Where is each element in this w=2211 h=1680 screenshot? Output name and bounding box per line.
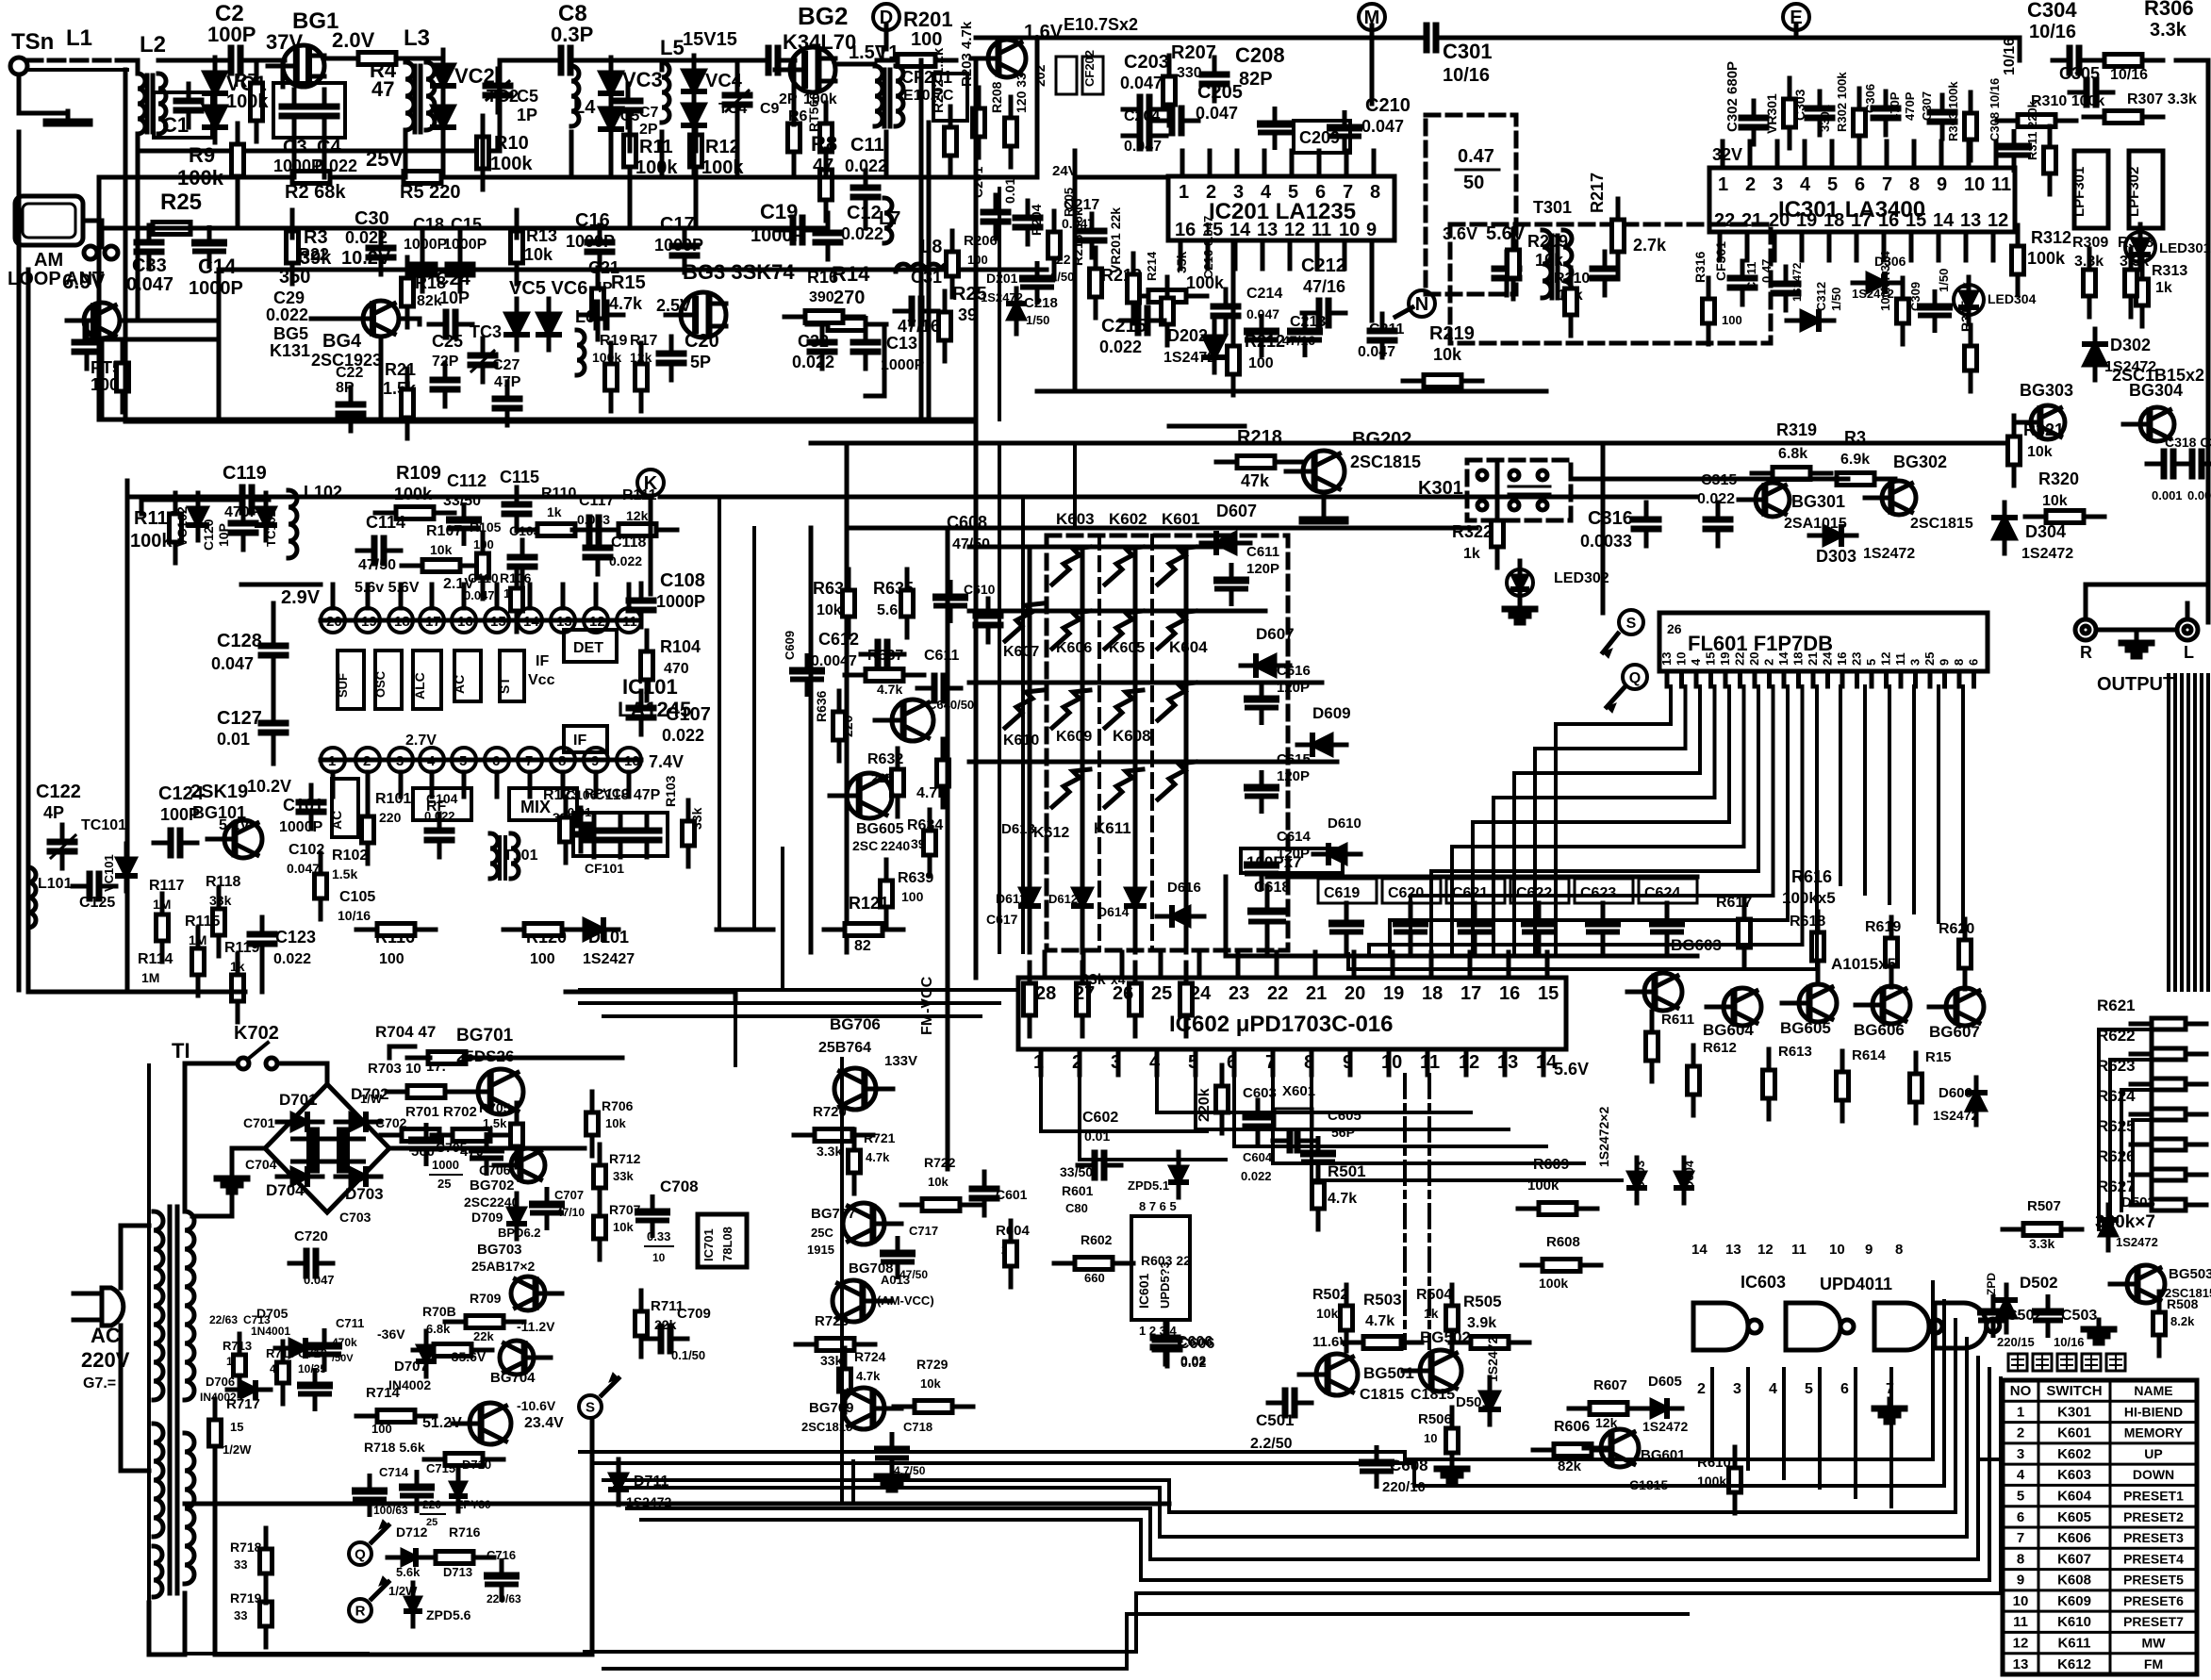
short bottom line left <box>189 1652 368 1655</box>
svg-text:10k: 10k <box>613 1220 634 1234</box>
svg-text:R2 68k: R2 68k <box>285 182 346 203</box>
svg-text:10/16: 10/16 <box>2054 1335 2085 1349</box>
svg-text:R712: R712 <box>609 1151 641 1166</box>
transistor BG201 <box>971 57 998 61</box>
svg-text:2.5V: 2.5V <box>656 296 691 315</box>
mid vertical buses <box>974 421 979 978</box>
svg-text:10k: 10k <box>1433 345 1462 364</box>
pin stub <box>1208 151 1213 176</box>
svg-text:0.022: 0.022 <box>273 951 311 967</box>
svg-text:4.7k: 4.7k <box>1365 1313 1394 1329</box>
svg-text:R608: R608 <box>1546 1234 1580 1250</box>
transistor BG604 <box>1707 1005 1734 1010</box>
resistor R7 100k <box>255 62 259 83</box>
svg-text:AM: AM <box>34 250 63 271</box>
svg-text:10/16: 10/16 <box>1443 65 1490 86</box>
svg-text:R17: R17 <box>630 333 657 349</box>
svg-text:20: 20 <box>1747 652 1761 666</box>
svg-text:2240: 2240 <box>881 838 910 853</box>
svg-text:R613: R613 <box>1778 1044 1812 1060</box>
svg-text:C108: C108 <box>660 570 705 591</box>
svg-text:K601: K601 <box>1162 510 1200 528</box>
svg-text:11: 11 <box>1312 220 1331 240</box>
svg-text:D607: D607 <box>1216 502 1257 520</box>
svg-text:16: 16 <box>1175 220 1196 240</box>
long wires la1245 bottom <box>28 990 245 995</box>
capacitor C1 <box>154 92 212 138</box>
svg-text:-10.6V: -10.6V <box>517 1398 556 1413</box>
svg-text:22: 22 <box>1733 652 1747 666</box>
svg-text:SUF: SUF <box>336 673 350 698</box>
svg-text:100: 100 <box>379 951 404 967</box>
svg-text:D604: D604 <box>1682 1160 1696 1190</box>
svg-text:16: 16 <box>1878 210 1899 231</box>
svg-text:DET: DET <box>573 640 603 656</box>
cap row bus <box>1226 877 1697 956</box>
svg-text:IC701: IC701 <box>701 1228 716 1261</box>
svg-text:PRESET6: PRESET6 <box>2123 1593 2184 1608</box>
svg-text:10: 10 <box>1829 1242 1845 1258</box>
svg-text:C119: C119 <box>223 463 267 484</box>
svg-text:ZPD5.6: ZPD5.6 <box>426 1607 471 1622</box>
svg-text:R703 10: R703 10 <box>368 1061 421 1077</box>
svg-text:(AM-VCC): (AM-VCC) <box>877 1293 934 1308</box>
resistor R10 100k <box>481 116 486 137</box>
svg-text:10: 10 <box>1381 1052 1402 1073</box>
svg-text:C503: C503 <box>2061 1308 2097 1324</box>
svg-text:25AB17×2: 25AB17×2 <box>471 1259 536 1274</box>
svg-text:100: 100 <box>371 1422 392 1436</box>
svg-text:7: 7 <box>2017 1530 2024 1546</box>
resistor R12 100k <box>694 114 699 135</box>
svg-text:R19: R19 <box>600 333 627 349</box>
svg-text:C708: C708 <box>660 1178 699 1195</box>
svg-text:R504: R504 <box>1416 1287 1452 1303</box>
svg-text:10: 10 <box>1964 174 1985 195</box>
svg-text:Vcc: Vcc <box>528 672 555 688</box>
svg-text:13: 13 <box>1257 220 1278 240</box>
svg-text:C118: C118 <box>611 535 646 551</box>
svg-text:1S2472: 1S2472 <box>1933 1108 1978 1123</box>
svg-text:26: 26 <box>1113 983 1133 1004</box>
svg-text:IF: IF <box>573 733 586 749</box>
svg-text:11: 11 <box>1791 1242 1807 1258</box>
svg-text:R202 1.2k: R202 1.2k <box>931 47 947 113</box>
C610 caps <box>949 583 953 598</box>
switch K602 <box>1105 547 1143 585</box>
svg-text:1: 1 <box>2017 1404 2024 1420</box>
svg-text:C601: C601 <box>996 1187 1028 1202</box>
svg-text:L2: L2 <box>140 32 166 58</box>
svg-text:IC602 μPD1703C-016: IC602 μPD1703C-016 <box>1169 1012 1394 1037</box>
svg-text:R606: R606 <box>1554 1419 1590 1435</box>
svg-text:100P: 100P <box>160 805 200 824</box>
svg-text:10/16: 10/16 <box>2110 67 2148 83</box>
svg-text:10k: 10k <box>928 1175 949 1189</box>
svg-text:2SA1015: 2SA1015 <box>1784 516 1847 532</box>
svg-text:BG605: BG605 <box>856 821 904 837</box>
svg-text:0.1/50: 0.1/50 <box>671 1348 705 1362</box>
svg-text:L: L <box>2184 643 2194 662</box>
svg-text:330: 330 <box>1177 65 1202 81</box>
svg-text:1P: 1P <box>517 106 537 124</box>
svg-text:12k: 12k <box>1595 1415 1618 1430</box>
capacitor C621 <box>1446 879 1505 903</box>
svg-text:13: 13 <box>1725 1242 1741 1258</box>
svg-text:L5: L5 <box>660 36 685 59</box>
resistor R13 10k <box>515 210 520 231</box>
svg-text:BG709: BG709 <box>809 1400 854 1416</box>
svg-text:25C: 25C <box>811 1226 833 1240</box>
svg-text:0.047: 0.047 <box>126 274 173 295</box>
svg-text:C123: C123 <box>275 928 316 947</box>
svg-text:22: 22 <box>1056 252 1071 267</box>
svg-text:K301: K301 <box>2057 1404 2091 1420</box>
svg-text:LPF302: LPF302 <box>2126 167 2142 217</box>
svg-text:16: 16 <box>1499 983 1520 1004</box>
svg-text:6.8k: 6.8k <box>1778 446 1807 462</box>
svg-text:R621: R621 <box>2097 996 2136 1014</box>
svg-text:32V: 32V <box>1712 145 1742 164</box>
svg-text:A1015x5: A1015x5 <box>1831 955 1896 973</box>
svg-text:4.7k: 4.7k <box>856 1369 881 1383</box>
svg-text:10: 10 <box>2013 1593 2029 1609</box>
svg-text:R619: R619 <box>1865 919 1901 935</box>
svg-text:0.47: 0.47 <box>1759 259 1774 283</box>
svg-text:K605: K605 <box>2057 1509 2091 1525</box>
ground <box>66 111 71 123</box>
wires top-left block <box>99 177 976 420</box>
svg-text:24V: 24V <box>1052 163 1078 179</box>
svg-text:C614: C614 <box>1277 829 1312 845</box>
svg-text:K612: K612 <box>2057 1656 2091 1672</box>
svg-text:1000P: 1000P <box>189 278 243 299</box>
svg-text:ST: ST <box>497 677 512 694</box>
svg-text:33k: 33k <box>613 1169 634 1183</box>
svg-text:CF101: CF101 <box>585 861 624 876</box>
svg-text:1000P: 1000P <box>279 819 323 835</box>
bg4 bg5 wires <box>217 321 222 420</box>
svg-text:R303 100k: R303 100k <box>1946 81 1960 141</box>
svg-text:CF301: CF301 <box>1713 241 1728 281</box>
svg-text:R114: R114 <box>138 951 173 967</box>
svg-text:3: 3 <box>1733 1381 1741 1397</box>
svg-text:C620: C620 <box>1388 885 1424 901</box>
svg-text:D612: D612 <box>1048 892 1078 906</box>
svg-text:0.047: 0.047 <box>1361 117 1404 136</box>
svg-text:18: 18 <box>1823 210 1844 231</box>
block RF <box>413 788 471 820</box>
svg-text:C122: C122 <box>36 782 81 802</box>
svg-text:C619: C619 <box>1324 885 1360 901</box>
svg-text:PRESET2: PRESET2 <box>2123 1509 2184 1524</box>
matrix horizontal wires <box>969 545 1226 550</box>
wire antenna dashed <box>26 58 127 63</box>
svg-text:100: 100 <box>967 253 988 267</box>
svg-text:20: 20 <box>1345 983 1365 1004</box>
svg-text:R11: R11 <box>639 137 673 157</box>
svg-text:R5 220: R5 220 <box>400 182 461 203</box>
transistor BG503 2SC1815 <box>2110 1282 2137 1287</box>
svg-text:1: 1 <box>1718 174 1728 195</box>
svg-text:C128: C128 <box>217 631 262 651</box>
svg-text:12: 12 <box>1757 1242 1774 1258</box>
svg-text:1000P: 1000P <box>404 237 448 253</box>
svg-text:5.2V: 5.2V <box>219 817 250 833</box>
svg-text:0.047: 0.047 <box>304 1273 335 1287</box>
svg-text:1N4001: 1N4001 <box>251 1325 290 1338</box>
svg-text:8: 8 <box>1909 174 1920 195</box>
svg-text:C311: C311 <box>1744 262 1758 290</box>
svg-text:10.2V: 10.2V <box>247 777 291 796</box>
main rail y447 <box>125 420 976 424</box>
svg-text:R21: R21 <box>385 360 416 379</box>
svg-text:0.022: 0.022 <box>792 353 834 371</box>
svg-text:R614: R614 <box>1852 1047 1887 1063</box>
svg-text:16: 16 <box>1835 652 1849 666</box>
svg-text:21: 21 <box>1741 210 1762 231</box>
svg-text:0.001: 0.001 <box>2152 488 2183 502</box>
capacitor C624 <box>1639 879 1697 903</box>
svg-text:R70B: R70B <box>422 1304 456 1319</box>
svg-text:Q: Q <box>1629 670 1641 686</box>
svg-text:2.9V: 2.9V <box>281 587 321 608</box>
svg-text:C715: C715 <box>426 1461 455 1475</box>
svg-text:D609: D609 <box>1312 704 1351 722</box>
svg-text:50: 50 <box>1463 173 1484 193</box>
svg-text:R: R <box>355 1603 366 1619</box>
svg-text:1S2472: 1S2472 <box>1790 262 1804 302</box>
svg-text:BG304: BG304 <box>2129 381 2183 400</box>
svg-text:12: 12 <box>1459 1052 1479 1073</box>
svg-text:7: 7 <box>1343 182 1353 203</box>
LED301 <box>2125 232 2155 262</box>
svg-text:R729: R729 <box>916 1357 949 1372</box>
svg-text:R105: R105 <box>470 519 502 535</box>
svg-text:R109: R109 <box>396 463 441 484</box>
svg-text:5P: 5P <box>690 353 711 371</box>
svg-text:0.022: 0.022 <box>609 553 642 568</box>
svg-text:C701: C701 <box>243 1115 275 1130</box>
svg-text:-35.6V: -35.6V <box>447 1349 487 1364</box>
svg-text:R312: R312 <box>2031 228 2071 247</box>
svg-text:22/63: 22/63 <box>209 1313 238 1326</box>
IC101 pin row top <box>321 608 345 633</box>
svg-text:100k: 100k <box>394 485 433 503</box>
capacitor C623 <box>1575 879 1633 903</box>
svg-text:10k: 10k <box>2042 493 2068 509</box>
svg-text:R212: R212 <box>1245 332 1285 351</box>
svg-text:R201: R201 <box>903 8 953 31</box>
verticals mid left of IC602 <box>781 848 784 990</box>
svg-text:19: 19 <box>1796 210 1817 231</box>
svg-text:82P: 82P <box>1239 69 1273 90</box>
svg-text:DOWN: DOWN <box>2133 1467 2174 1482</box>
svg-text:6: 6 <box>1967 659 1981 666</box>
svg-text:22k: 22k <box>473 1329 494 1343</box>
svg-text:0.047: 0.047 <box>464 588 495 602</box>
svg-text:D701: D701 <box>279 1091 318 1109</box>
svg-text:10k: 10k <box>430 542 453 557</box>
svg-text:24: 24 <box>1190 983 1212 1004</box>
svg-text:C617: C617 <box>986 912 1018 927</box>
svg-text:202: 202 <box>1032 64 1048 87</box>
svg-text:R12: R12 <box>705 137 740 157</box>
svg-text:T301: T301 <box>1533 198 1572 217</box>
node M <box>1359 4 1385 30</box>
NAND gate 4 <box>1935 1303 1987 1348</box>
svg-text:R209: R209 <box>1527 232 1568 251</box>
svg-text:BG5: BG5 <box>273 324 308 343</box>
svg-text:4: 4 <box>2017 1467 2025 1483</box>
svg-text:0.47: 0.47 <box>1458 146 1494 167</box>
varicap VC2 <box>441 50 446 101</box>
svg-text:9: 9 <box>1938 659 1952 666</box>
svg-text:C714: C714 <box>379 1465 409 1479</box>
svg-text:1k: 1k <box>547 504 562 519</box>
svg-text:1000P: 1000P <box>881 357 925 373</box>
svg-text:C640/50: C640/50 <box>928 698 974 712</box>
svg-text:R718: R718 <box>230 1540 262 1555</box>
svg-text:R322: R322 <box>1452 522 1493 541</box>
svg-text:8: 8 <box>1952 659 1966 666</box>
svg-text:1S2472: 1S2472 <box>1485 1337 1500 1382</box>
svg-text:BPD6.2: BPD6.2 <box>498 1226 541 1240</box>
svg-text:33k: 33k <box>689 807 704 830</box>
svg-text:R626: R626 <box>2097 1147 2136 1165</box>
svg-text:C214: C214 <box>1246 286 1282 302</box>
svg-text:AC: AC <box>452 675 467 694</box>
svg-text:1.5k: 1.5k <box>332 866 357 881</box>
svg-text:R22: R22 <box>298 245 329 264</box>
svg-text:PRESET1: PRESET1 <box>2123 1488 2184 1503</box>
svg-text:2: 2 <box>1697 1381 1706 1397</box>
capacitor C209 <box>1294 121 1350 153</box>
svg-text:25: 25 <box>426 1517 437 1528</box>
diodes bottom of matrix <box>1028 874 1032 921</box>
rail y1052 <box>566 992 735 999</box>
svg-text:-11.2V: -11.2V <box>517 1319 555 1334</box>
svg-text:C112: C112 <box>447 471 487 490</box>
svg-text:-36V: -36V <box>377 1326 405 1342</box>
svg-text:L1: L1 <box>66 25 92 51</box>
svg-text:1S2472: 1S2472 <box>2021 546 2073 562</box>
svg-text:R602: R602 <box>1081 1232 1113 1247</box>
svg-text:1915: 1915 <box>807 1243 834 1257</box>
pin stub <box>1262 151 1267 176</box>
svg-text:PRESET7: PRESET7 <box>2123 1614 2184 1629</box>
svg-text:D304: D304 <box>2025 522 2066 541</box>
svg-text:HI-BIEND: HI-BIEND <box>2124 1404 2183 1419</box>
svg-text:R620: R620 <box>1939 921 1974 937</box>
svg-text:1000: 1000 <box>432 1158 459 1172</box>
wires ic301 right <box>2018 38 2022 60</box>
svg-text:220: 220 <box>379 810 402 825</box>
svg-text:27: 27 <box>1074 983 1095 1004</box>
svg-text:D610: D610 <box>1328 815 1361 832</box>
svg-text:100P: 100P <box>207 23 256 46</box>
svg-text:C711: C711 <box>336 1316 364 1330</box>
rail y470 right <box>811 441 2005 446</box>
svg-text:0.02: 0.02 <box>1180 1353 1206 1368</box>
svg-text:LPF301: LPF301 <box>2071 167 2087 217</box>
resistor R4 47 <box>338 57 358 61</box>
svg-text:C606: C606 <box>1177 1334 1213 1350</box>
svg-text:19: 19 <box>1718 652 1732 666</box>
svg-text:ZPD5.1: ZPD5.1 <box>1128 1178 1169 1193</box>
svg-text:8.2k: 8.2k <box>2170 1314 2195 1328</box>
svg-text:C15: C15 <box>451 215 482 234</box>
svg-text:R716: R716 <box>449 1524 481 1540</box>
svg-text:R102: R102 <box>332 848 368 864</box>
svg-text:K131: K131 <box>270 341 310 360</box>
svg-text:R618: R618 <box>1790 914 1825 930</box>
svg-text:C501: C501 <box>1256 1411 1295 1429</box>
resistor R3 39k <box>290 210 295 231</box>
wires K node <box>649 496 653 594</box>
svg-text:2: 2 <box>1206 182 1216 203</box>
svg-text:10/16: 10/16 <box>2029 22 2076 42</box>
svg-text:FL601 F1P7DB: FL601 F1P7DB <box>1688 632 1833 655</box>
svg-text:D303: D303 <box>1816 547 1856 566</box>
svg-text:C703: C703 <box>339 1210 371 1225</box>
transistor BG60x 2SC2240 <box>830 794 859 799</box>
vertical buses 1060 1085 <box>998 443 1001 952</box>
svg-text:R627: R627 <box>2097 1178 2136 1195</box>
svg-text:10k: 10k <box>524 245 553 264</box>
transistor BG708 <box>863 1299 891 1304</box>
svg-text:C316: C316 <box>1588 508 1633 529</box>
svg-text:390: 390 <box>809 289 834 305</box>
bottom long bus lines <box>185 1502 1169 1507</box>
svg-text:4P: 4P <box>594 280 613 296</box>
svg-text:L101: L101 <box>38 876 73 892</box>
capacitor C620 <box>1382 879 1441 903</box>
svg-text:1k: 1k <box>1463 546 1480 562</box>
svg-text:R722: R722 <box>924 1155 956 1170</box>
svg-text:K: K <box>644 473 658 494</box>
svg-text:2.7V: 2.7V <box>405 733 437 749</box>
svg-text:BG606: BG606 <box>1854 1021 1905 1039</box>
svg-text:0.022: 0.022 <box>1241 1169 1272 1183</box>
svg-text:270: 270 <box>833 288 865 308</box>
svg-text:15: 15 <box>1538 983 1559 1004</box>
svg-text:FM: FM <box>2144 1656 2163 1672</box>
pin stub <box>1372 151 1377 176</box>
switch K603 <box>1052 547 1090 585</box>
svg-text:AC: AC <box>91 1324 121 1347</box>
verticals x763 x800 <box>718 500 721 929</box>
block DET <box>564 630 617 662</box>
svg-text:1S2427: 1S2427 <box>583 951 635 967</box>
svg-text:100kx5: 100kx5 <box>1782 889 1836 907</box>
AC plug <box>102 1288 124 1326</box>
svg-text:R625: R625 <box>2097 1117 2136 1135</box>
right border of top-left block <box>919 60 924 421</box>
svg-text:100: 100 <box>911 29 942 50</box>
svg-text:15: 15 <box>230 1420 243 1434</box>
svg-text:6: 6 <box>2017 1509 2024 1525</box>
svg-text:11: 11 <box>1893 652 1907 666</box>
LED304 <box>1954 285 1984 315</box>
svg-text:BG2: BG2 <box>798 2 848 30</box>
svg-text:5: 5 <box>1827 174 1838 195</box>
svg-text:C605: C605 <box>1328 1108 1361 1124</box>
bottom pair stepping <box>585 1378 2001 1652</box>
svg-text:133V: 133V <box>884 1053 917 1069</box>
svg-text:25V: 25V <box>366 147 403 171</box>
svg-text:10k: 10k <box>2027 444 2053 460</box>
